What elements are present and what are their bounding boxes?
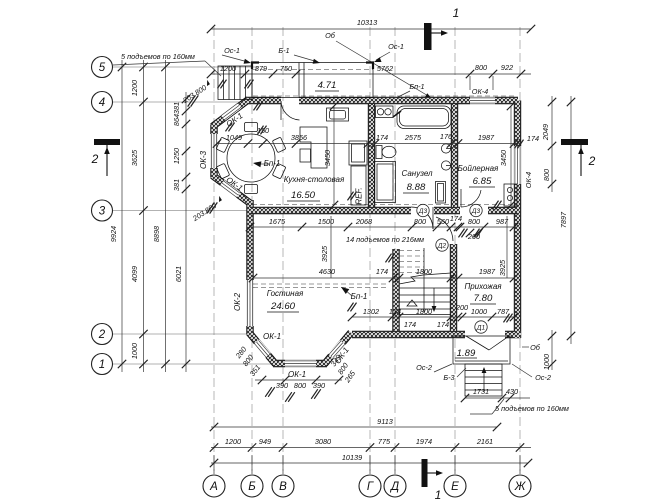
svg-text:Д: Д: [389, 481, 399, 493]
bathtub: [397, 106, 451, 129]
svg-text:Б: Б: [248, 481, 256, 493]
svg-text:2049: 2049: [541, 124, 550, 141]
rear steps 5 подъемов: [465, 364, 502, 396]
kitchen chairs: [272, 163, 286, 179]
left dim line 8898: [165, 60, 167, 372]
interior dim row kitchen/bath y143: [217, 143, 518, 145]
svg-text:3625: 3625: [130, 149, 139, 166]
bottom dim line 9113: [211, 426, 497, 428]
svg-text:1200: 1200: [130, 80, 139, 96]
svg-text:3925: 3925: [498, 259, 507, 276]
axis circle В: [272, 475, 294, 497]
svg-text:750: 750: [280, 64, 292, 73]
svg-text:1: 1: [453, 6, 460, 20]
kitchen sink unit: [327, 108, 349, 121]
svg-text:381: 381: [172, 102, 181, 114]
axis circle 2: [92, 324, 113, 345]
svg-text:1800: 1800: [416, 267, 432, 276]
interior dim row living y278: [253, 277, 514, 279]
svg-text:Д3: Д3: [471, 208, 481, 215]
kitchen door from porch: [281, 101, 300, 120]
bath small cabinet: [436, 182, 446, 204]
svg-text:Санузел: Санузел: [401, 169, 433, 178]
lintel dashed line above top wall: [253, 95, 517, 97]
top dim chain 1200 879 750 5762 800 922: [211, 73, 531, 75]
window ОК-1 lower bay bottom: [285, 360, 316, 368]
axis grid vertical dashed lines А-Ж: [213, 27, 215, 471]
lintel dashed line above mid wall: [252, 204, 517, 206]
svg-text:5762: 5762: [377, 64, 393, 73]
right porch dim 1000: [551, 330, 553, 370]
svg-text:Е: Е: [451, 481, 459, 493]
svg-text:10139: 10139: [342, 453, 362, 462]
svg-text:1: 1: [99, 359, 105, 371]
staircase lower flight treads: [399, 287, 451, 289]
staircase upper flight dashed treads: [399, 250, 424, 252]
axis circle Г: [359, 475, 381, 497]
svg-text:3925: 3925: [320, 245, 329, 262]
svg-text:2: 2: [98, 329, 106, 341]
shower cabinet: [375, 162, 396, 203]
svg-text:390: 390: [276, 381, 288, 390]
svg-text:Ос-2: Ос-2: [535, 373, 551, 382]
svg-text:1500: 1500: [318, 217, 334, 226]
svg-text:800: 800: [468, 217, 480, 226]
bay dim ticks decorative: [253, 102, 259, 111]
axis circle Б: [241, 475, 263, 497]
svg-text:775: 775: [378, 437, 391, 446]
bottom axis circle stubs: [213, 455, 215, 474]
svg-text:176: 176: [440, 132, 453, 141]
porch corner flags: [252, 63, 259, 70]
svg-text:1675: 1675: [269, 217, 286, 226]
toilet: [376, 146, 382, 159]
svg-text:922: 922: [501, 63, 513, 72]
svg-text:1000: 1000: [130, 343, 139, 359]
svg-text:9113: 9113: [377, 417, 393, 426]
door circle Д3 bath: [417, 204, 429, 216]
door circle Д3 boiler: [470, 204, 482, 216]
svg-text:800: 800: [294, 381, 306, 390]
right dim line 7897: [570, 96, 572, 344]
beam dashed lines living: [253, 283, 388, 285]
svg-text:Г: Г: [367, 481, 374, 493]
svg-text:10313: 10313: [357, 18, 377, 27]
svg-text:1200: 1200: [225, 437, 241, 446]
window ОК-4 top wall boiler: [470, 97, 495, 105]
svg-text:ОК-4: ОК-4: [472, 87, 488, 96]
window ОК-1 bay top diagonal: [223, 106, 239, 118]
svg-text:1: 1: [435, 488, 442, 502]
bath sink double: [376, 106, 394, 118]
svg-text:Ж: Ж: [514, 481, 527, 493]
porch terrace 4.71 outline: [252, 63, 373, 98]
svg-text:381: 381: [172, 179, 181, 191]
window ОК-1 lower bay left diagonal: [257, 342, 269, 356]
section mark 2 right: [561, 139, 588, 145]
svg-text:Бп-1: Бп-1: [409, 82, 424, 91]
svg-text:Д1: Д1: [476, 325, 486, 332]
lower bay dims 390 800 390: [255, 379, 342, 381]
porch 1.89 outline: [453, 336, 510, 364]
svg-text:REF.: REF.: [355, 187, 364, 204]
outer walls hatched: [213, 100, 522, 365]
svg-text:ОК-3: ОК-3: [199, 150, 208, 169]
axis circle 3: [92, 200, 113, 221]
left dim line 6021/381/864/1250/381: [185, 92, 187, 372]
svg-text:174: 174: [437, 320, 449, 329]
svg-text:В: В: [279, 481, 287, 493]
svg-text:7.80: 7.80: [474, 293, 493, 304]
right dim chain 2049 800: [551, 96, 553, 192]
svg-text:5 подъемов по 160мм: 5 подъемов по 160мм: [121, 52, 195, 61]
svg-text:174: 174: [389, 307, 401, 316]
kitchen island counter: [300, 127, 327, 168]
window ОК-1 lower bay right diagonal: [331, 343, 343, 357]
svg-text:24.60: 24.60: [270, 301, 296, 312]
svg-text:Б-1: Б-1: [278, 46, 289, 55]
svg-text:3080: 3080: [315, 437, 331, 446]
left dim chain 1200/3625/4099/1000: [143, 60, 145, 372]
svg-text:Кухня-столовая: Кухня-столовая: [284, 175, 345, 184]
svg-text:174: 174: [450, 214, 462, 223]
svg-text:1000: 1000: [471, 307, 487, 316]
svg-text:Об: Об: [325, 31, 336, 40]
svg-text:174: 174: [527, 134, 539, 143]
svg-text:3856: 3856: [291, 133, 308, 142]
svg-text:А: А: [209, 481, 218, 493]
door Д3 boiler arc: [461, 190, 481, 207]
svg-text:6021: 6021: [174, 266, 183, 282]
svg-text:Д3: Д3: [418, 208, 428, 215]
svg-text:560: 560: [437, 217, 449, 226]
section mark 1 bottom: [422, 459, 428, 487]
axis circle Д: [384, 475, 406, 497]
svg-text:8898: 8898: [152, 225, 161, 242]
door Д3 bathroom arc: [411, 207, 433, 229]
svg-text:2068: 2068: [355, 217, 373, 226]
svg-text:800: 800: [475, 63, 487, 72]
svg-text:4.71: 4.71: [318, 80, 337, 91]
kitchen round table: [227, 134, 275, 182]
svg-text:174: 174: [376, 133, 388, 142]
svg-text:Гостиная: Гостиная: [267, 289, 304, 298]
svg-text:390: 390: [313, 381, 325, 390]
svg-text:Об: Об: [530, 343, 541, 352]
left dim line 9924: [121, 60, 123, 372]
svg-text:1000: 1000: [542, 354, 551, 370]
door circle Д1: [475, 321, 487, 333]
svg-text:Ос-2: Ос-2: [416, 363, 432, 372]
svg-text:ОК-4: ОК-4: [524, 172, 533, 188]
door Д2 stairs leaf: [436, 217, 453, 241]
axis circle Ж: [509, 475, 531, 497]
refrigerator REF: [351, 166, 366, 205]
svg-text:1987: 1987: [479, 267, 496, 276]
axis grid horizontal dashed lines 1-5: [112, 66, 258, 68]
window ОК-4 east wall: [514, 146, 522, 184]
interior dim row bottom y317: [352, 316, 517, 318]
svg-text:Д2: Д2: [437, 243, 447, 250]
svg-text:1987: 1987: [478, 133, 495, 142]
svg-text:8.88: 8.88: [407, 182, 426, 193]
bottom dim line 10139: [211, 462, 528, 464]
svg-text:3: 3: [99, 205, 106, 217]
svg-text:4: 4: [99, 97, 105, 109]
axis circle А: [203, 475, 225, 497]
svg-text:ОК-2: ОК-2: [233, 292, 242, 311]
svg-text:1731: 1731: [473, 387, 489, 396]
svg-text:2: 2: [91, 152, 99, 166]
svg-text:7897: 7897: [559, 211, 568, 228]
window ОК-1 bay bottom diagonal: [222, 183, 238, 195]
svg-text:864: 864: [172, 114, 181, 126]
door Д1 hall exit leaves: [466, 336, 489, 350]
svg-text:5 подъемов по 160мм: 5 подъемов по 160мм: [495, 404, 569, 413]
svg-text:ОК-1: ОК-1: [263, 332, 281, 341]
svg-text:Ос-1: Ос-1: [388, 42, 404, 51]
staircase break line: [399, 273, 451, 284]
svg-text:9924: 9924: [109, 226, 118, 242]
svg-text:430: 430: [506, 387, 518, 396]
svg-text:Прихожая: Прихожая: [464, 282, 502, 291]
svg-text:16.50: 16.50: [291, 190, 316, 201]
svg-text:879: 879: [255, 64, 267, 73]
axis circle 5: [92, 57, 113, 78]
svg-text:Бп-1: Бп-1: [264, 159, 281, 168]
svg-text:2575: 2575: [404, 133, 422, 142]
svg-text:1800: 1800: [416, 307, 432, 316]
svg-text:3450: 3450: [499, 150, 508, 166]
top dim line 10313: [211, 28, 531, 30]
svg-text:787: 787: [497, 307, 510, 316]
svg-text:ОК-1: ОК-1: [288, 370, 306, 379]
svg-text:1974: 1974: [416, 437, 432, 446]
svg-text:2: 2: [588, 154, 596, 168]
svg-text:5: 5: [99, 62, 106, 74]
svg-text:2161: 2161: [476, 437, 493, 446]
svg-text:174: 174: [404, 320, 416, 329]
svg-text:1.89: 1.89: [457, 348, 476, 359]
svg-text:14 подъемов по 216мм: 14 подъемов по 216мм: [346, 235, 424, 244]
bath wall circles radiator: [441, 144, 450, 153]
svg-text:Б-3: Б-3: [443, 373, 454, 382]
section mark 1 top: [424, 23, 432, 50]
svg-text:1049: 1049: [226, 133, 242, 142]
svg-text:Бп-1: Бп-1: [351, 292, 368, 301]
axis circle 1: [92, 354, 113, 375]
kitchen stove unit: [349, 141, 367, 165]
axis circle Е: [444, 475, 466, 497]
window ОК-2 west wall living: [246, 280, 254, 326]
svg-text:800: 800: [542, 169, 551, 181]
svg-text:174: 174: [376, 267, 388, 276]
interior dim row below mid wall y227: [250, 226, 517, 228]
staircase down arrow: [433, 288, 435, 311]
axis circle 4: [92, 92, 113, 113]
svg-text:800: 800: [414, 217, 426, 226]
bottom dim chain 1200 949 3080 775 1974 2161: [211, 447, 531, 449]
svg-text:1250: 1250: [172, 148, 181, 164]
boiler stove: [504, 184, 517, 206]
window ОК-3 bay west: [210, 134, 218, 168]
door circle Д2: [436, 239, 448, 251]
svg-text:Бойлерная: Бойлерная: [458, 164, 499, 173]
svg-text:4099: 4099: [130, 266, 139, 282]
svg-text:949: 949: [259, 437, 271, 446]
svg-text:6.85: 6.85: [473, 176, 492, 187]
entry stairs 5 steps top left: [218, 66, 252, 100]
svg-text:Ос-1: Ос-1: [224, 46, 240, 55]
section mark 2 left: [94, 139, 120, 145]
svg-text:200: 200: [455, 303, 468, 312]
svg-text:4630: 4630: [319, 267, 335, 276]
svg-text:1200: 1200: [220, 64, 236, 73]
svg-text:3450: 3450: [323, 150, 332, 166]
svg-text:1302: 1302: [363, 307, 379, 316]
